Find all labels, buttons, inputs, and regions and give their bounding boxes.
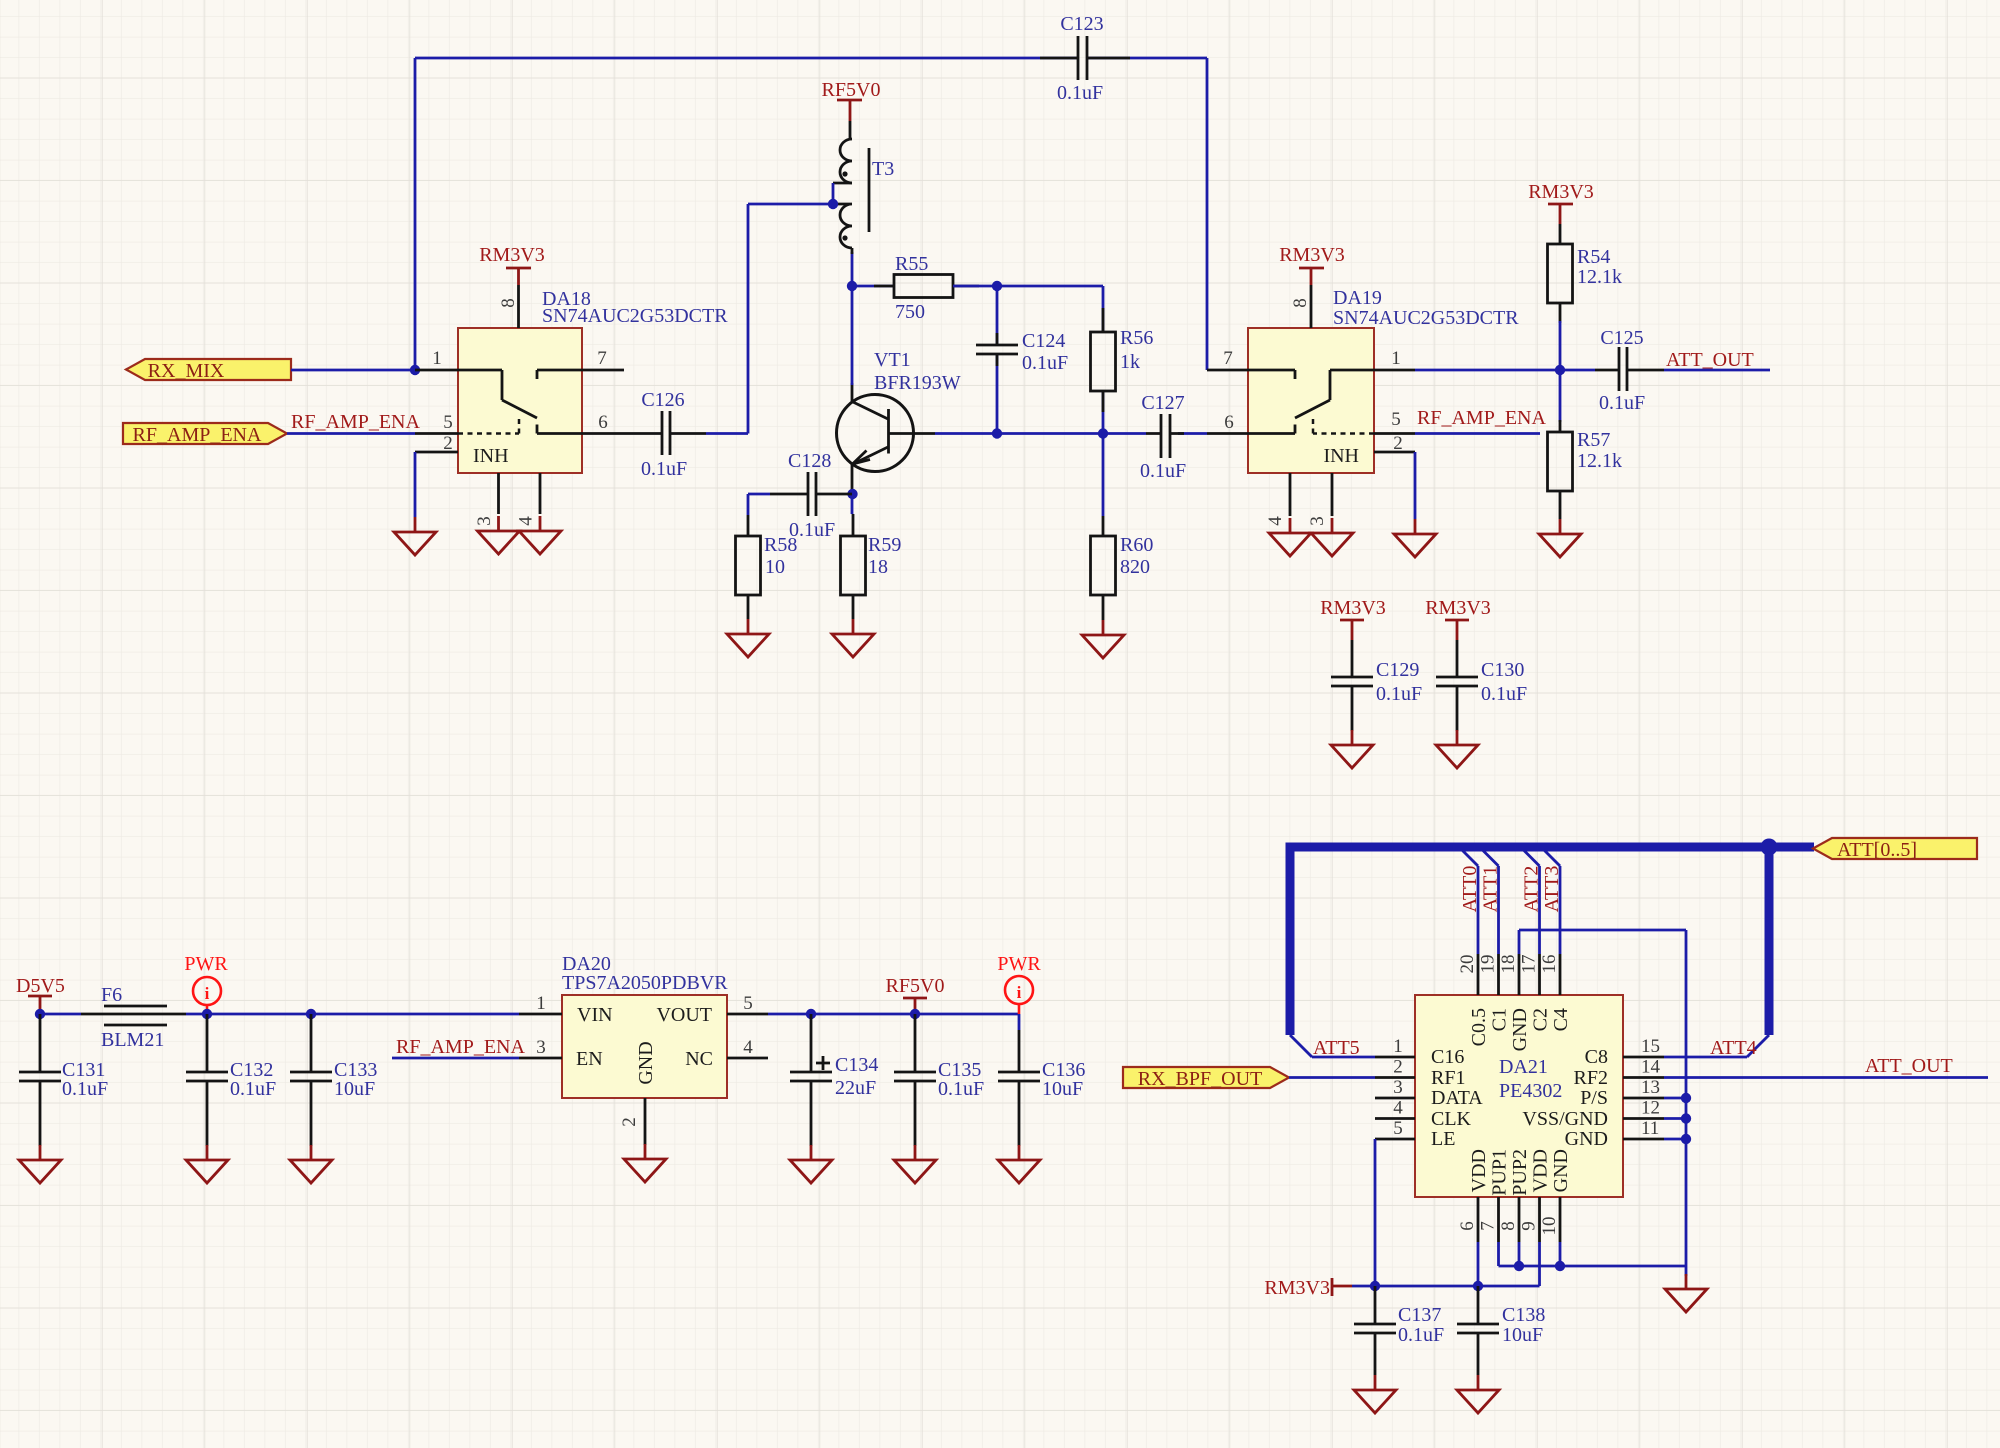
DA21 pin 19 [1478,954,1499,995]
svg-text:P/S: P/S [1580,1087,1608,1109]
svg-text:ATT4: ATT4 [1710,1037,1757,1059]
svg-text:GND: GND [635,1041,657,1084]
DA18 pin 8 [498,285,519,328]
wire pins 13 12 11 to GND net [1664,1098,1686,1139]
svg-text:1: 1 [1391,348,1401,369]
svg-text:4: 4 [1265,516,1286,526]
junction C134 node [806,1009,816,1019]
svg-text:2: 2 [1393,433,1403,454]
svg-text:F6: F6 [101,984,122,1006]
svg-text:0.1uF: 0.1uF [62,1078,108,1100]
DA21 pin 6 [1457,1197,1478,1242]
net label ATT4 [1710,1037,1757,1059]
DA21 pin 4 [1375,1098,1415,1119]
DA18 pin 5 [415,412,458,434]
DA21 pin 13 [1623,1077,1664,1098]
port RF_AMP_ENA [123,423,287,446]
capacitor C129 [1331,640,1422,731]
power RM3V3 at R54 [1528,181,1594,224]
junction bottom GND pin8 [1514,1261,1524,1271]
bus entry ATT2 [1521,847,1540,866]
svg-text:16: 16 [1539,955,1560,974]
wire ATT0 [1477,866,1480,954]
svg-text:1: 1 [432,348,442,369]
power RF5V0 at T3 [822,79,881,121]
svg-text:750: 750 [895,301,925,323]
svg-text:5: 5 [1393,1118,1403,1139]
power RM3V3 at DA18 [479,244,545,285]
svg-text:SN74AUC2G53DCTR: SN74AUC2G53DCTR [542,305,728,327]
power D5V5 [16,975,65,1014]
wire LE riser [1374,1139,1377,1286]
svg-text:1: 1 [536,993,546,1014]
capacitor C137 [1354,1286,1444,1375]
svg-text:3: 3 [1307,516,1328,526]
svg-text:RF5V0: RF5V0 [886,975,945,997]
svg-text:1k: 1k [1120,351,1140,373]
DA19 pin 3 [1307,473,1332,526]
DA21 pin 10 [1539,1197,1560,1242]
DA20 pin 1 [519,993,562,1014]
svg-text:PUP2: PUP2 [1509,1149,1531,1196]
svg-text:PE4302: PE4302 [1499,1080,1562,1102]
net label RF_AMP_ENA at DA20 [396,1036,525,1058]
svg-text:INH: INH [1323,445,1359,467]
wire R55 to R56 node [953,285,1103,288]
svg-text:RF_AMP_ENA: RF_AMP_ENA [133,424,262,446]
capacitor C138 [1457,1286,1545,1375]
wire ATT4 [1664,1056,1747,1059]
svg-text:0.1uF: 0.1uF [641,458,687,480]
svg-text:20: 20 [1457,955,1478,974]
capacitor C127 [1140,392,1186,482]
ground C136 [998,1145,1040,1183]
DA19 pin 2 [1374,433,1415,454]
wire net C123 top feedback [415,58,1207,370]
port RX_MIX [126,359,291,382]
net label ATT_OUT [1666,349,1754,371]
svg-text:7: 7 [597,348,607,369]
svg-text:C125: C125 [1600,327,1643,349]
net label ATT_OUT at DA21 [1865,1055,1953,1077]
bus entry ATT1 [1480,847,1499,866]
wire pin 6 to rail [1477,1242,1480,1286]
wire ATT1 [1497,866,1500,954]
ground C138 [1457,1375,1499,1413]
DA20 pin 5 [727,993,768,1014]
ground C135 [894,1145,936,1183]
wire GND net pin 18 [1519,930,1686,1266]
junction emitter node [847,489,857,499]
DA21 pin 7 [1478,1197,1499,1242]
svg-text:10uF: 10uF [334,1078,375,1100]
svg-text:C124: C124 [1022,330,1065,352]
svg-text:4: 4 [1393,1098,1403,1119]
resistor R54 [1548,224,1623,323]
ground R58 [727,619,769,657]
svg-text:9: 9 [1519,1221,1540,1231]
DA20 pin 4 [727,1037,768,1058]
svg-text:18: 18 [1498,955,1519,974]
bus entry ATT4 [1747,1035,1769,1057]
DA18 pin 6 [582,412,623,434]
bus entry ATT3 [1541,847,1560,866]
junction bottom GND pin10 [1555,1261,1565,1271]
net label ATT1 [1480,866,1502,913]
svg-text:i: i [1017,983,1022,1002]
svg-text:12: 12 [1641,1098,1660,1119]
DA21 pin 16 [1539,954,1560,995]
svg-text:RM3V3: RM3V3 [479,244,545,266]
net label ATT2 [1521,866,1543,913]
DA21 left pin names [1431,1046,1483,1150]
svg-text:R56: R56 [1120,327,1153,349]
power PWR indicator 2 [997,953,1041,1014]
svg-text:820: 820 [1120,556,1150,578]
svg-text:NC: NC [685,1048,713,1070]
junction bus node [1761,839,1778,856]
DA21 pin 12 [1623,1098,1664,1119]
DA21 pin 17 [1519,954,1540,995]
DA21 pin 18 [1498,954,1519,995]
svg-text:VSS/GND: VSS/GND [1522,1108,1608,1130]
svg-text:13: 13 [1641,1077,1660,1098]
capacitor C123 [1040,13,1130,104]
svg-text:8: 8 [498,298,519,308]
svg-text:R55: R55 [895,253,928,275]
DA18 pin 2 [415,433,458,454]
DA21 pin 14 [1623,1057,1664,1078]
svg-text:3: 3 [1393,1077,1403,1098]
svg-text:3: 3 [474,516,495,526]
svg-text:VDD: VDD [1530,1149,1552,1192]
svg-text:RM3V3: RM3V3 [1528,181,1594,203]
svg-text:GND: GND [1550,1149,1572,1192]
resistor R59 [841,514,902,619]
DA21 top pin names [1468,1008,1572,1051]
wire emitter node [851,492,854,514]
ground DA18 pin 3 [478,516,520,554]
svg-text:C123: C123 [1060,13,1103,35]
ground C130 [1436,730,1478,768]
svg-text:0.1uF: 0.1uF [230,1078,276,1100]
svg-text:C128: C128 [788,450,831,472]
ground C132 [186,1145,228,1183]
svg-text:7: 7 [1478,1221,1499,1231]
junction C133 node [306,1009,316,1019]
junction R55/C124 node [992,281,1002,291]
wire C128 left to R58 [747,494,750,515]
svg-text:BLM21: BLM21 [101,1029,164,1051]
svg-text:RM3V3: RM3V3 [1425,597,1491,619]
svg-text:RX_MIX: RX_MIX [148,360,225,382]
svg-text:0.1uF: 0.1uF [1398,1324,1444,1346]
capacitor C130 [1436,640,1527,731]
svg-text:PWR: PWR [997,953,1041,975]
wire DA20 VOUT rail [768,1014,1019,1030]
svg-text:ATT[0..5]: ATT[0..5] [1837,839,1917,861]
svg-text:R60: R60 [1120,534,1153,556]
DA21 pin 11 [1623,1118,1664,1139]
svg-text:PUP1: PUP1 [1489,1149,1511,1196]
wire RM3V3 rail bottom [1352,1242,1540,1286]
op-amp U-DA18 analog switch body [458,288,728,473]
svg-text:ATT_OUT: ATT_OUT [1666,349,1754,371]
junction GND pin13 [1681,1093,1691,1103]
svg-text:2: 2 [619,1117,640,1127]
wire RX_MIX to DA18 pin 1 [291,369,415,372]
wire T3 tap [832,183,835,204]
svg-text:0.1uF: 0.1uF [938,1078,984,1100]
capacitor C128 [748,450,852,541]
svg-text:0.1uF: 0.1uF [1376,683,1422,705]
net label RF_AMP_ENA [291,411,420,433]
svg-text:19: 19 [1478,955,1499,974]
svg-text:10uF: 10uF [1042,1078,1083,1100]
resistor R56 [1091,286,1154,434]
junction collector node [847,281,857,291]
transformer T3 [833,121,894,248]
net label ATT5 [1313,1037,1360,1059]
ground R57 [1539,519,1581,557]
DA21 pin 2 [1375,1057,1415,1078]
svg-text:ATT2: ATT2 [1521,866,1543,913]
capacitor C125 [1595,327,1664,414]
svg-text:R59: R59 [868,534,901,556]
svg-text:0.1uF: 0.1uF [1481,683,1527,705]
svg-text:22uF: 22uF [835,1077,876,1099]
DA21 pin 3 [1375,1077,1415,1098]
DA21 pin 15 [1623,1036,1664,1057]
svg-text:0.1uF: 0.1uF [1022,352,1068,374]
DA18 switch symbol [458,370,582,467]
svg-text:T3: T3 [872,158,894,180]
capacitor C134 polarized [790,1014,878,1146]
svg-text:BFR193W: BFR193W [874,372,961,394]
ferrite bead F6 [81,984,186,1051]
wire R54 to DA19 pin1 node [1559,321,1562,370]
junction C135 node [910,1009,920,1019]
capacitor C131 [19,1014,108,1146]
wire F6 to PWR node [186,1013,519,1016]
svg-text:R57: R57 [1577,429,1610,451]
junction R56 bottom node [1098,428,1108,438]
svg-text:C1: C1 [1489,1008,1511,1031]
svg-text:0.1uF: 0.1uF [1057,82,1103,104]
power RM3V3 at DA19 [1279,244,1345,285]
wire base to DA19 pin 6 [935,432,1207,435]
port ATT[0..5] [1813,838,1977,861]
bus entry ATT0 [1459,847,1478,866]
power RM3V3 at C129 [1320,597,1386,640]
svg-text:GND: GND [1565,1128,1608,1150]
DA21 pin 5 [1375,1118,1415,1139]
svg-text:10: 10 [765,556,785,578]
net label ATT3 [1541,866,1563,913]
svg-text:0.1uF: 0.1uF [1599,392,1645,414]
svg-text:DATA: DATA [1431,1087,1483,1109]
ground R59 [832,619,874,657]
svg-text:4: 4 [743,1037,753,1058]
junction T3 tap [828,199,838,209]
svg-text:RM3V3: RM3V3 [1279,244,1345,266]
svg-text:VT1: VT1 [874,349,911,371]
svg-text:10uF: 10uF [1502,1324,1543,1346]
DA19 pin 6 [1207,412,1248,434]
junction GND pin11 [1681,1134,1691,1144]
ground DA20 pin 2 [624,1144,666,1182]
svg-text:1: 1 [1393,1036,1403,1057]
capacitor C136 [998,1030,1085,1146]
junction RX_MIX node [410,365,420,375]
ground DA18 pin 4 [519,516,561,554]
capacitor C124 [976,286,1068,434]
svg-text:5: 5 [443,412,453,433]
DA18 pin 1 [415,348,458,370]
svg-text:RF2: RF2 [1574,1067,1608,1089]
svg-text:C129: C129 [1376,659,1419,681]
svg-text:4: 4 [516,516,537,526]
svg-text:7: 7 [1223,348,1233,369]
wire D5V5 to F6 [40,1013,81,1016]
resistor R58 [736,515,798,619]
ground C137 [1354,1375,1396,1413]
svg-text:RF_AMP_ENA: RF_AMP_ENA [291,411,420,433]
svg-text:RX_BPF_OUT: RX_BPF_OUT [1138,1068,1262,1090]
wire DA19 pin 5 RF_AMP_ENA [1415,432,1540,435]
wire T3 bottom to collector node [851,252,854,286]
svg-text:ATT1: ATT1 [1480,866,1502,913]
svg-text:C16: C16 [1431,1046,1464,1068]
svg-text:6: 6 [598,412,608,433]
net label ATT0 [1459,866,1481,913]
DA21 pin 20 [1457,954,1478,995]
DA18 pin 7 [582,348,624,370]
wire DA18 pin 2 to ground [414,452,417,517]
junction C124 bottom node [992,428,1002,438]
DA21 right pin names [1522,1046,1608,1150]
wire T3 winding lead [851,248,854,254]
svg-text:C126: C126 [641,389,684,411]
resistor R55 [874,253,979,323]
capacitor C133 [290,1014,377,1146]
svg-text:5: 5 [743,993,753,1014]
junction ATT node [1555,365,1565,375]
svg-text:C0.5: C0.5 [1468,1008,1490,1046]
junction C132 node [202,1009,212,1019]
ground DA21 GND net [1665,1274,1707,1312]
transistor VT1 [837,349,961,494]
svg-text:ATT5: ATT5 [1313,1037,1360,1059]
wire DA19 pin 2 to ground [1414,452,1417,519]
DA19 pin 5 [1374,409,1415,434]
power RF5V0 at rail [886,975,945,1014]
svg-text:PWR: PWR [184,953,228,975]
wire ATT3 [1559,866,1562,954]
svg-text:18: 18 [868,556,888,578]
svg-text:TPS7A2050PDBVR: TPS7A2050PDBVR [562,972,728,994]
wire node to R57 [1559,370,1562,422]
wire bottom GND line [1499,1242,1687,1276]
attenuator DA21 body [1415,995,1623,1197]
svg-text:RM3V3: RM3V3 [1320,597,1386,619]
junction D5V5 node [35,1009,45,1019]
ground R60 [1082,620,1124,658]
svg-text:0.1uF: 0.1uF [1140,460,1186,482]
svg-text:C130: C130 [1481,659,1524,681]
resistor R57 [1548,420,1623,519]
svg-text:i: i [205,984,210,1003]
svg-text:RM3V3: RM3V3 [1264,1277,1330,1299]
ground DA19 pin 4 [1269,518,1311,556]
svg-text:VIN: VIN [577,1004,613,1026]
svg-text:R58: R58 [764,534,797,556]
bus ATT[0..5] [1290,847,1814,1035]
ground DA18 pin 2 [394,517,436,555]
svg-text:C137: C137 [1398,1304,1441,1326]
svg-text:DA21: DA21 [1499,1056,1548,1078]
svg-text:C134: C134 [835,1054,878,1076]
svg-text:15: 15 [1641,1036,1660,1057]
svg-text:GND: GND [1509,1008,1531,1051]
svg-text:C8: C8 [1585,1046,1608,1068]
svg-text:C138: C138 [1502,1304,1545,1326]
svg-text:ATT_OUT: ATT_OUT [1865,1055,1953,1077]
capacitor C135 [894,1014,984,1146]
DA18 pin 3 [474,473,499,526]
ground C133 [290,1145,332,1183]
svg-text:RF1: RF1 [1431,1067,1465,1089]
power PWR indicator 1 [184,953,228,1014]
DA19 pin 7 [1207,348,1248,370]
svg-text:5: 5 [1391,409,1401,430]
svg-text:6: 6 [1224,412,1234,433]
net label RF_AMP_ENA at DA19 [1417,407,1546,429]
svg-text:DA19: DA19 [1333,287,1382,309]
svg-text:RF_AMP_ENA: RF_AMP_ENA [1417,407,1546,429]
ground DA19 pin 3 [1311,518,1353,556]
power RM3V3 at DA21 [1264,1277,1352,1299]
DA19 switch symbol [1248,370,1374,467]
voltage regulator DA20 body [562,953,728,1098]
svg-text:2: 2 [1393,1057,1403,1078]
svg-text:8: 8 [1290,298,1311,308]
svg-text:C2: C2 [1530,1008,1552,1031]
junction C138 node [1473,1281,1483,1291]
wire RX_BPF_OUT to DA21 RF1 [1289,1076,1375,1079]
svg-text:2: 2 [443,433,453,454]
svg-text:8: 8 [1498,1221,1519,1231]
svg-text:ATT0: ATT0 [1459,866,1481,913]
svg-text:LE: LE [1431,1128,1455,1150]
port RX_BPF_OUT [1123,1067,1289,1090]
svg-text:RF5V0: RF5V0 [822,79,881,101]
capacitor C126 [623,389,706,480]
DA20 pin 2 [619,1098,645,1145]
svg-text:12.1k: 12.1k [1577,266,1622,288]
svg-text:SN74AUC2G53DCTR: SN74AUC2G53DCTR [1333,307,1519,329]
svg-text:10: 10 [1539,1217,1560,1236]
wire RF_AMP_ENA to DA18 pin 5 [287,432,415,435]
ground C134 [790,1145,832,1183]
DA21 bottom pin names [1468,1149,1572,1196]
junction GND pin12 [1681,1113,1691,1123]
DA21 pin 9 [1519,1197,1540,1242]
wire C126 to T3 tap [706,204,833,434]
wire collector node to R55 [852,285,894,288]
svg-text:INH: INH [473,445,509,467]
DA21 pin 1 [1375,1036,1415,1057]
